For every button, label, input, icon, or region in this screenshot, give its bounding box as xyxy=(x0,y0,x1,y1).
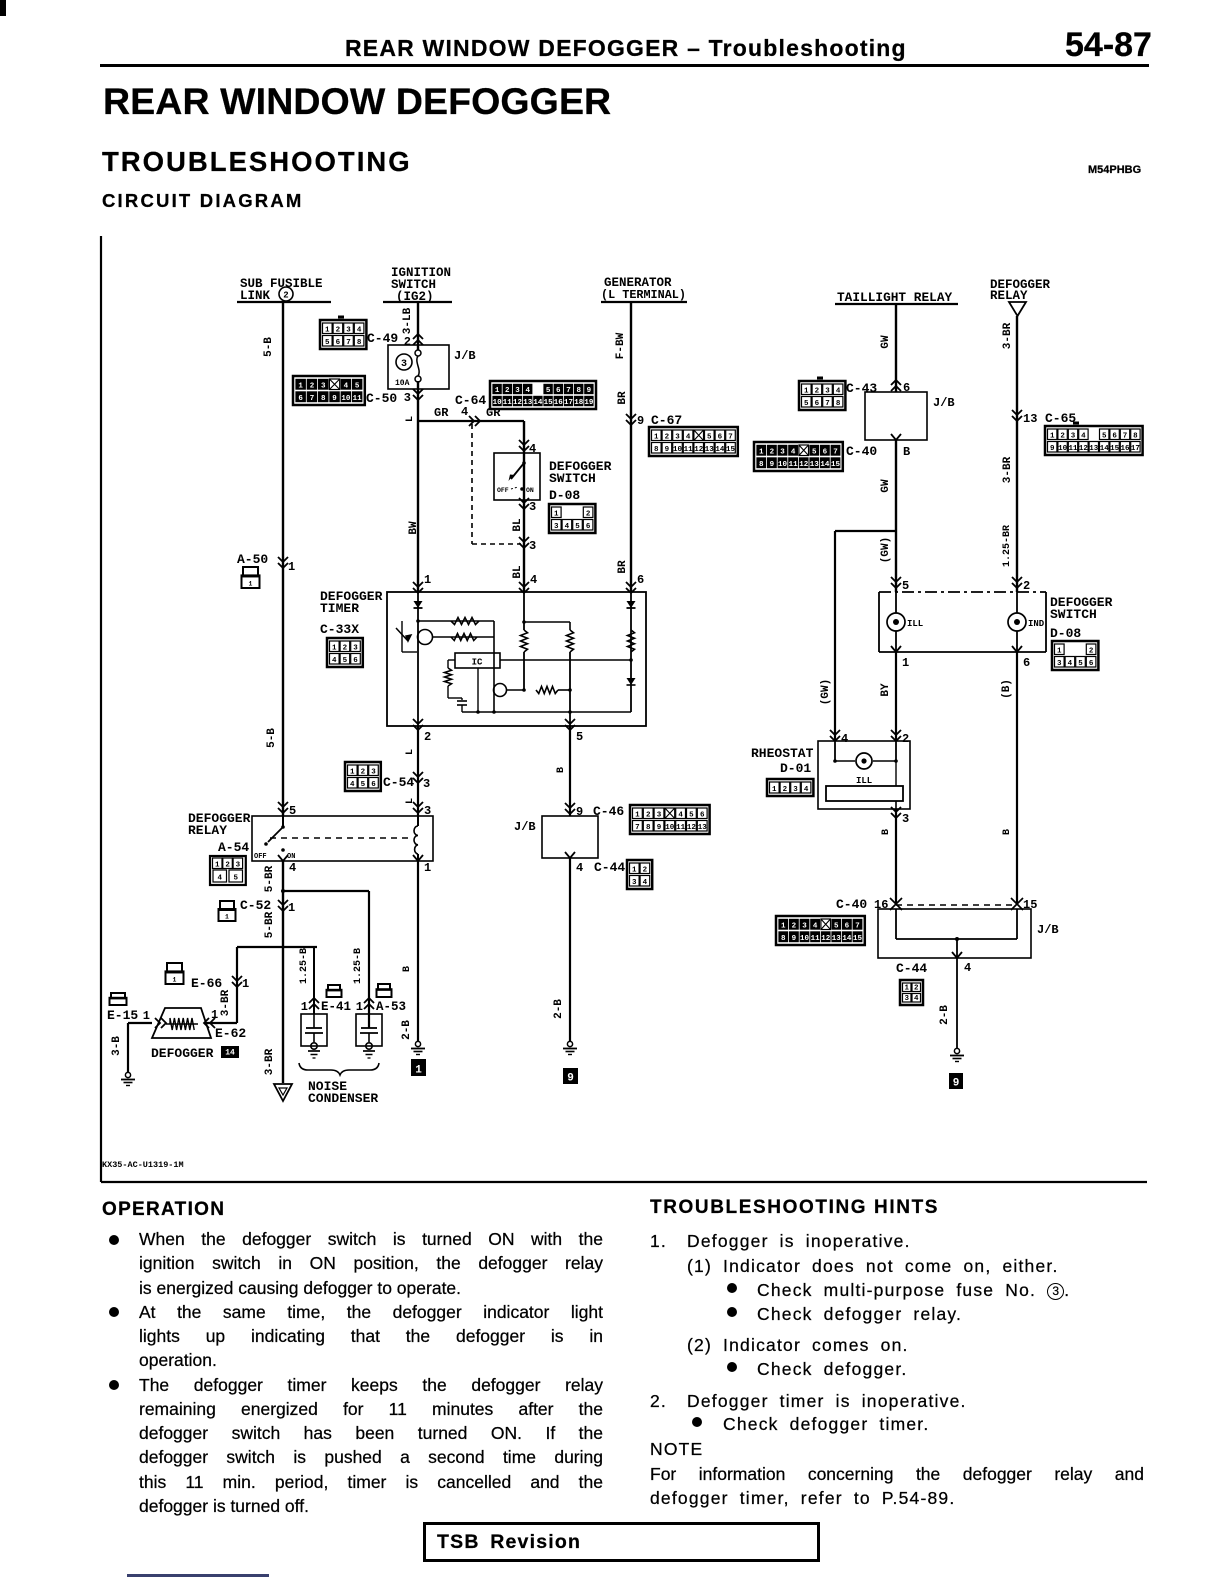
svg-text:3: 3 xyxy=(554,523,559,531)
svg-text:F-BW: F-BW xyxy=(615,332,627,359)
svg-text:C-44: C-44 xyxy=(896,961,927,976)
svg-text:J/B: J/B xyxy=(933,396,955,410)
svg-text:C-50: C-50 xyxy=(366,391,397,406)
svg-text:4: 4 xyxy=(576,861,583,875)
svg-text:1: 1 xyxy=(332,644,337,652)
svg-text:5: 5 xyxy=(325,339,330,347)
svg-text:4: 4 xyxy=(350,781,355,789)
svg-text:3-LB: 3-LB xyxy=(402,307,414,334)
svg-text:14: 14 xyxy=(1100,445,1110,453)
svg-text:E-41: E-41 xyxy=(321,1000,351,1014)
svg-text:8: 8 xyxy=(654,446,659,454)
svg-text:2-B: 2-B xyxy=(553,999,565,1019)
svg-text:KX35-AC-U1319-1M: KX35-AC-U1319-1M xyxy=(102,1160,184,1170)
svg-text:1: 1 xyxy=(215,862,220,870)
svg-text:D-08: D-08 xyxy=(549,488,580,503)
svg-text:4: 4 xyxy=(678,811,683,819)
svg-text:10: 10 xyxy=(800,935,810,943)
svg-text:1: 1 xyxy=(288,901,295,915)
svg-text:C-43: C-43 xyxy=(846,381,877,396)
svg-text:5: 5 xyxy=(689,811,694,819)
svg-text:19: 19 xyxy=(584,399,594,407)
svg-text:1: 1 xyxy=(298,382,303,390)
svg-text:18: 18 xyxy=(574,399,584,407)
svg-text:5: 5 xyxy=(233,875,238,883)
svg-text:7: 7 xyxy=(825,400,830,408)
svg-text:C-54: C-54 xyxy=(383,775,414,790)
svg-text:15: 15 xyxy=(853,935,863,943)
svg-text:4: 4 xyxy=(332,657,337,665)
svg-text:6: 6 xyxy=(1023,656,1030,670)
svg-text:CONDENSER: CONDENSER xyxy=(308,1091,378,1106)
svg-text:9: 9 xyxy=(770,461,775,469)
svg-text:1: 1 xyxy=(495,387,500,395)
svg-text:3: 3 xyxy=(423,777,430,791)
svg-text:3-BR: 3-BR xyxy=(264,1048,276,1075)
svg-text:3: 3 xyxy=(802,922,807,930)
svg-text:1.25-B: 1.25-B xyxy=(353,948,364,984)
svg-text:13: 13 xyxy=(523,399,533,407)
svg-text:4: 4 xyxy=(643,879,648,887)
svg-text:A-50: A-50 xyxy=(237,552,268,567)
svg-text:9: 9 xyxy=(953,1078,960,1090)
svg-text:1: 1 xyxy=(635,811,640,819)
svg-text:3: 3 xyxy=(902,812,909,826)
svg-text:5: 5 xyxy=(812,448,817,456)
svg-text:B: B xyxy=(556,767,567,773)
svg-text:A-53: A-53 xyxy=(376,1000,406,1014)
svg-text:BR: BR xyxy=(617,391,629,405)
svg-text:7: 7 xyxy=(1123,432,1128,440)
svg-text:5: 5 xyxy=(546,387,551,395)
svg-text:7: 7 xyxy=(728,433,733,441)
svg-text:B: B xyxy=(903,445,910,459)
svg-text:4: 4 xyxy=(836,387,841,395)
svg-text:11: 11 xyxy=(811,935,821,943)
svg-text:5: 5 xyxy=(804,400,809,408)
svg-text:5: 5 xyxy=(576,730,583,744)
svg-text:1: 1 xyxy=(1057,647,1062,655)
svg-text:13: 13 xyxy=(810,461,820,469)
svg-text:(GW): (GW) xyxy=(820,679,832,705)
svg-text:1: 1 xyxy=(902,656,909,670)
svg-text:9: 9 xyxy=(657,824,662,832)
svg-text:7: 7 xyxy=(566,387,571,395)
svg-text:IC: IC xyxy=(472,658,483,668)
svg-text:5: 5 xyxy=(1102,432,1107,440)
svg-text:10: 10 xyxy=(1058,445,1068,453)
svg-text:15: 15 xyxy=(1110,445,1120,453)
svg-text:14: 14 xyxy=(225,1049,235,1058)
svg-text:3: 3 xyxy=(236,862,241,870)
svg-text:C-49: C-49 xyxy=(367,331,398,346)
svg-text:C-40: C-40 xyxy=(846,444,877,459)
svg-text:ILL: ILL xyxy=(907,619,923,629)
svg-text:12: 12 xyxy=(821,935,831,943)
svg-text:BY: BY xyxy=(880,683,892,697)
svg-text:2: 2 xyxy=(310,382,315,390)
svg-text:1.25-B: 1.25-B xyxy=(299,948,310,984)
svg-text:SWITCH: SWITCH xyxy=(549,471,596,486)
svg-text:1: 1 xyxy=(904,984,909,992)
svg-text:2: 2 xyxy=(902,732,909,746)
svg-text:4: 4 xyxy=(791,448,796,456)
svg-text:9: 9 xyxy=(576,805,583,819)
svg-text:2: 2 xyxy=(770,448,775,456)
svg-text:14: 14 xyxy=(820,461,830,469)
svg-text:2: 2 xyxy=(1023,579,1030,593)
svg-text:3: 3 xyxy=(657,811,662,819)
svg-text:11: 11 xyxy=(503,399,513,407)
svg-text:4: 4 xyxy=(1081,432,1086,440)
svg-text:5-B: 5-B xyxy=(266,728,278,748)
svg-text:3-BR: 3-BR xyxy=(1002,456,1014,483)
svg-text:1: 1 xyxy=(211,1008,218,1022)
svg-text:C-44: C-44 xyxy=(594,860,625,875)
svg-text:OFF: OFF xyxy=(254,853,267,861)
svg-text:5: 5 xyxy=(361,781,366,789)
svg-text:GW: GW xyxy=(880,479,892,493)
svg-text:J/B: J/B xyxy=(454,349,476,363)
svg-text:2: 2 xyxy=(361,768,366,776)
svg-text:2: 2 xyxy=(643,866,648,874)
svg-text:2-B: 2-B xyxy=(401,1020,413,1040)
svg-text:3: 3 xyxy=(780,448,785,456)
svg-text:6: 6 xyxy=(556,387,561,395)
svg-text:11: 11 xyxy=(676,824,686,832)
svg-text:15: 15 xyxy=(831,461,841,469)
svg-text:9: 9 xyxy=(637,414,644,428)
svg-text:16: 16 xyxy=(874,898,888,912)
svg-text:2: 2 xyxy=(1089,647,1094,655)
svg-text:11: 11 xyxy=(789,461,799,469)
svg-text:4: 4 xyxy=(289,861,296,875)
svg-text:2: 2 xyxy=(283,291,288,301)
svg-text:7: 7 xyxy=(635,824,640,832)
svg-text:(B): (B) xyxy=(1001,679,1013,699)
svg-text:L: L xyxy=(405,416,416,422)
svg-text:7: 7 xyxy=(833,448,838,456)
svg-text:11: 11 xyxy=(1068,445,1078,453)
svg-text:5: 5 xyxy=(1078,660,1083,668)
svg-text:ON: ON xyxy=(526,487,534,494)
svg-text:6: 6 xyxy=(353,657,358,665)
svg-text:2: 2 xyxy=(783,786,788,794)
svg-text:2: 2 xyxy=(424,730,431,744)
svg-text:3: 3 xyxy=(529,539,536,553)
svg-text:5: 5 xyxy=(355,382,360,390)
svg-text:2: 2 xyxy=(336,326,341,334)
svg-text:2-B: 2-B xyxy=(939,1005,951,1025)
svg-text:6: 6 xyxy=(586,523,591,531)
svg-text:7: 7 xyxy=(346,339,351,347)
svg-text:1: 1 xyxy=(1050,432,1055,440)
svg-text:3: 3 xyxy=(346,326,351,334)
svg-text:1: 1 xyxy=(415,1065,422,1077)
svg-text:OFF: OFF xyxy=(497,487,509,494)
svg-text:3: 3 xyxy=(904,995,909,1003)
svg-text:13: 13 xyxy=(832,935,842,943)
svg-text:3: 3 xyxy=(529,500,536,514)
svg-text:4: 4 xyxy=(525,387,530,395)
svg-text:2: 2 xyxy=(343,644,348,652)
svg-text:6: 6 xyxy=(298,395,303,403)
svg-text:15: 15 xyxy=(544,399,554,407)
svg-text:11: 11 xyxy=(353,395,363,403)
svg-text:E-66: E-66 xyxy=(191,976,222,991)
svg-text:3: 3 xyxy=(1071,432,1076,440)
svg-text:3: 3 xyxy=(353,644,358,652)
svg-text:3: 3 xyxy=(675,433,680,441)
svg-text:C-40: C-40 xyxy=(836,897,867,912)
svg-text:16: 16 xyxy=(1120,445,1130,453)
svg-text:2: 2 xyxy=(586,510,591,518)
svg-text:BW: BW xyxy=(408,521,420,535)
svg-text:3: 3 xyxy=(825,387,830,395)
svg-text:2: 2 xyxy=(505,387,510,395)
svg-text:5-BR: 5-BR xyxy=(264,865,276,892)
svg-text:9: 9 xyxy=(332,395,337,403)
svg-text:9: 9 xyxy=(567,1073,574,1085)
svg-text:13: 13 xyxy=(698,824,708,832)
svg-text:2: 2 xyxy=(665,433,670,441)
svg-text:14: 14 xyxy=(715,446,725,454)
svg-text:17: 17 xyxy=(564,399,573,407)
svg-text:TIMER: TIMER xyxy=(320,601,359,616)
svg-text:4: 4 xyxy=(1068,660,1073,668)
svg-text:8: 8 xyxy=(759,461,764,469)
svg-text:9: 9 xyxy=(587,387,592,395)
svg-text:1: 1 xyxy=(772,786,777,794)
svg-text:C-33X: C-33X xyxy=(320,622,359,637)
svg-text:5: 5 xyxy=(343,657,348,665)
svg-text:1: 1 xyxy=(249,581,253,588)
svg-text:3: 3 xyxy=(371,768,376,776)
svg-text:1: 1 xyxy=(554,510,559,518)
svg-text:C-65: C-65 xyxy=(1045,411,1076,426)
svg-text:11: 11 xyxy=(684,446,694,454)
svg-text:E-62: E-62 xyxy=(215,1026,246,1041)
svg-text:13: 13 xyxy=(1089,445,1099,453)
svg-text:GR: GR xyxy=(434,406,449,420)
svg-text:IND: IND xyxy=(1028,619,1045,629)
svg-text:1: 1 xyxy=(781,922,786,930)
svg-text:C-52: C-52 xyxy=(240,898,271,913)
svg-text:J/B: J/B xyxy=(1037,923,1059,937)
svg-text:10: 10 xyxy=(341,395,351,403)
svg-text:DEFOGGER: DEFOGGER xyxy=(151,1046,214,1061)
svg-text:3: 3 xyxy=(401,359,407,370)
svg-text:2: 2 xyxy=(815,387,820,395)
svg-text:10: 10 xyxy=(778,461,788,469)
svg-text:2: 2 xyxy=(792,922,797,930)
svg-text:13: 13 xyxy=(705,446,715,454)
svg-text:B: B xyxy=(881,829,892,835)
svg-text:12: 12 xyxy=(1079,445,1089,453)
svg-text:5-BR: 5-BR xyxy=(264,911,276,938)
svg-text:(L TERMINAL): (L TERMINAL) xyxy=(601,288,686,302)
svg-text:1: 1 xyxy=(143,1009,150,1023)
svg-text:4: 4 xyxy=(530,573,537,587)
svg-text:1: 1 xyxy=(632,866,637,874)
svg-text:13: 13 xyxy=(1023,412,1037,426)
svg-text:4: 4 xyxy=(804,786,809,794)
svg-text:6: 6 xyxy=(815,400,820,408)
svg-text:9: 9 xyxy=(665,446,670,454)
svg-text:1: 1 xyxy=(356,1000,363,1014)
svg-text:B: B xyxy=(1002,829,1013,835)
svg-text:4: 4 xyxy=(964,961,971,975)
svg-text:15: 15 xyxy=(726,446,736,454)
svg-text:4: 4 xyxy=(217,875,222,883)
svg-text:4: 4 xyxy=(813,922,818,930)
svg-text:BL: BL xyxy=(512,565,524,579)
svg-text:16: 16 xyxy=(554,399,564,407)
svg-text:6: 6 xyxy=(845,922,850,930)
svg-text:E-15: E-15 xyxy=(107,1008,138,1023)
svg-text:1: 1 xyxy=(424,861,431,875)
svg-text:10: 10 xyxy=(493,399,503,407)
svg-text:12: 12 xyxy=(694,446,704,454)
svg-text:10A: 10A xyxy=(395,379,410,388)
svg-text:17: 17 xyxy=(1131,445,1140,453)
svg-text:BL: BL xyxy=(512,518,524,532)
svg-text:3: 3 xyxy=(404,391,411,405)
svg-text:ON: ON xyxy=(287,853,295,861)
svg-text:1: 1 xyxy=(654,433,659,441)
svg-text:12: 12 xyxy=(513,399,523,407)
svg-text:A-54: A-54 xyxy=(218,840,249,855)
svg-text:7: 7 xyxy=(310,395,315,403)
svg-text:B: B xyxy=(402,966,413,972)
svg-text:5: 5 xyxy=(707,433,712,441)
svg-text:BR: BR xyxy=(617,560,629,574)
svg-text:1: 1 xyxy=(173,977,177,984)
svg-text:SWITCH: SWITCH xyxy=(1050,607,1097,622)
svg-text:TAILLIGHT RELAY: TAILLIGHT RELAY xyxy=(837,290,953,305)
svg-text:9: 9 xyxy=(1050,445,1055,453)
svg-text:9: 9 xyxy=(792,935,797,943)
svg-text:6: 6 xyxy=(637,573,644,587)
svg-text:L: L xyxy=(405,749,416,755)
svg-text:5: 5 xyxy=(834,922,839,930)
svg-text:2: 2 xyxy=(1060,432,1065,440)
svg-text:6: 6 xyxy=(1112,432,1117,440)
svg-text:8: 8 xyxy=(781,935,786,943)
svg-text:D-01: D-01 xyxy=(780,761,811,776)
svg-text:6: 6 xyxy=(718,433,723,441)
svg-text:6: 6 xyxy=(1089,660,1094,668)
svg-text:3-B: 3-B xyxy=(111,1036,123,1056)
svg-text:5-B: 5-B xyxy=(263,337,275,357)
svg-text:1.25-BR: 1.25-BR xyxy=(1002,525,1013,567)
svg-text:1: 1 xyxy=(804,387,809,395)
svg-text:3: 3 xyxy=(515,387,520,395)
svg-text:5: 5 xyxy=(575,523,580,531)
svg-text:6: 6 xyxy=(371,781,376,789)
svg-text:RELAY: RELAY xyxy=(990,289,1028,303)
svg-text:(GW): (GW) xyxy=(880,537,892,563)
svg-text:D-08: D-08 xyxy=(1050,626,1081,641)
svg-text:4: 4 xyxy=(565,523,570,531)
svg-text:3-BR: 3-BR xyxy=(220,989,232,1016)
svg-text:2: 2 xyxy=(225,862,230,870)
svg-text:6: 6 xyxy=(336,339,341,347)
svg-text:RHEOSTAT: RHEOSTAT xyxy=(751,746,814,761)
svg-text:7: 7 xyxy=(855,922,860,930)
svg-text:1: 1 xyxy=(350,768,355,776)
svg-text:12: 12 xyxy=(799,461,809,469)
svg-text:1: 1 xyxy=(759,448,764,456)
svg-text:10: 10 xyxy=(673,446,683,454)
svg-text:4: 4 xyxy=(357,326,362,334)
svg-text:1: 1 xyxy=(325,326,330,334)
svg-text:3: 3 xyxy=(321,382,326,390)
svg-text:4: 4 xyxy=(529,442,536,456)
svg-text:ILL: ILL xyxy=(856,776,872,786)
svg-text:1: 1 xyxy=(301,1000,308,1014)
svg-text:6: 6 xyxy=(823,448,828,456)
svg-text:3: 3 xyxy=(1057,660,1062,668)
svg-text:8: 8 xyxy=(1133,432,1138,440)
svg-text:1: 1 xyxy=(288,560,295,574)
svg-text:8: 8 xyxy=(836,400,841,408)
svg-text:4: 4 xyxy=(841,732,848,746)
svg-text:4: 4 xyxy=(914,995,919,1003)
svg-text:J/B: J/B xyxy=(514,820,536,834)
svg-text:6: 6 xyxy=(700,811,705,819)
svg-text:14: 14 xyxy=(533,399,543,407)
svg-text:8: 8 xyxy=(357,339,362,347)
svg-text:1: 1 xyxy=(424,573,431,587)
svg-text:8: 8 xyxy=(321,395,326,403)
svg-text:5: 5 xyxy=(902,579,909,593)
svg-text:GW: GW xyxy=(880,335,892,349)
svg-text:3: 3 xyxy=(632,879,637,887)
svg-text:10: 10 xyxy=(665,824,675,832)
svg-text:8: 8 xyxy=(646,824,651,832)
svg-text:6: 6 xyxy=(903,381,910,395)
svg-text:3: 3 xyxy=(793,786,798,794)
svg-text:RELAY: RELAY xyxy=(188,823,227,838)
svg-text:4: 4 xyxy=(344,382,349,390)
svg-text:2: 2 xyxy=(646,811,651,819)
svg-text:2: 2 xyxy=(404,335,411,349)
svg-text:12: 12 xyxy=(687,824,697,832)
svg-text:8: 8 xyxy=(576,387,581,395)
svg-text:1: 1 xyxy=(242,977,249,991)
svg-text:4: 4 xyxy=(686,433,691,441)
svg-text:14: 14 xyxy=(842,935,852,943)
svg-text:2: 2 xyxy=(914,984,919,992)
svg-text:C-64: C-64 xyxy=(455,393,486,408)
svg-text:3-BR: 3-BR xyxy=(1002,322,1014,349)
svg-text:1: 1 xyxy=(225,914,229,921)
